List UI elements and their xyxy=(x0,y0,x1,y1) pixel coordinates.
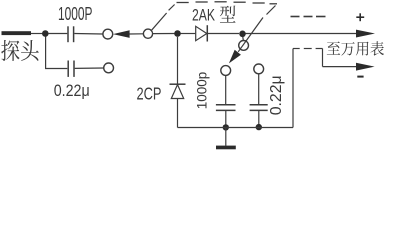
ground stem xyxy=(225,128,227,146)
wire C4 to rail xyxy=(258,111,260,126)
wire probe to node A xyxy=(31,33,43,35)
wire D1 to node C xyxy=(208,33,239,35)
ground symbol bar xyxy=(216,146,236,150)
capacitor C3 1000p xyxy=(216,105,236,111)
wire S2a to C3 xyxy=(225,76,227,105)
switch S1 wiper line xyxy=(129,33,143,35)
diode D2 2CP cathode bar xyxy=(170,83,186,85)
gang dashed horizontal xyxy=(177,2,278,4)
switch S1 contact a circle xyxy=(103,29,113,39)
wire node B down to D2 xyxy=(177,37,179,84)
svg-text:0.22μ: 0.22μ xyxy=(268,75,285,115)
switch S2 lever xyxy=(238,18,263,52)
dashed bridge to output - xyxy=(293,48,300,50)
label 探头 xyxy=(1,40,39,61)
svg-text:1000P: 1000P xyxy=(58,4,93,24)
node E junction dot xyxy=(256,124,262,130)
switch S1 lever xyxy=(152,13,167,30)
wire node B to D1 xyxy=(181,33,196,35)
ground rail xyxy=(178,127,294,129)
switch S2 pivot circle xyxy=(239,41,249,51)
output + arrowhead xyxy=(356,30,375,38)
output - arrowhead xyxy=(356,63,375,71)
svg-text:2CP: 2CP xyxy=(137,84,162,104)
svg-text:1000p: 1000p xyxy=(194,72,209,110)
switch S2 contact b circle xyxy=(254,64,264,74)
wire node C to output + xyxy=(246,33,358,35)
svg-text:0.22μ: 0.22μ xyxy=(54,82,90,100)
wire node A down xyxy=(46,37,68,69)
switch S1 pivot circle xyxy=(143,29,152,38)
wire node A to C1 xyxy=(48,33,67,35)
switch S2 contact a circle xyxy=(221,66,231,76)
wire C2 to S1 contact b xyxy=(75,67,104,69)
label + xyxy=(356,13,364,21)
wire C3 to rail xyxy=(225,111,227,126)
capacitor C4 0.22u xyxy=(250,105,268,111)
dashed marks near + output xyxy=(291,16,326,18)
wire S2b to C4 xyxy=(258,74,260,104)
switch S1 wiper arrowhead xyxy=(113,30,130,38)
capacitor C2 0.22u xyxy=(68,61,74,77)
node C junction dot xyxy=(239,31,246,38)
capacitor C1 1000P xyxy=(68,26,74,42)
rail riser right xyxy=(292,49,294,128)
diode D1 cathode bar xyxy=(206,25,208,41)
probe tip bar xyxy=(2,31,32,35)
stub node C to S2 pivot xyxy=(242,37,245,41)
gang dashed diagonal right xyxy=(267,6,276,15)
label 型 xyxy=(220,6,236,23)
output - wire xyxy=(323,66,358,68)
wire C1 to S1 contact a xyxy=(74,33,103,36)
node B junction dot xyxy=(174,30,181,37)
diode D2 2CP triangle xyxy=(171,85,183,99)
label 至万用表 xyxy=(327,41,384,55)
riser to output - line xyxy=(322,49,324,67)
label - xyxy=(357,76,363,78)
diode D1 2AK triangle xyxy=(196,26,207,40)
switch S2 wiper arrowhead xyxy=(229,50,241,64)
node A junction dot xyxy=(42,30,49,37)
wire D2 to rail xyxy=(177,99,179,128)
wire S1 pivot to node B xyxy=(153,33,175,35)
switch S1 contact b circle xyxy=(104,63,114,73)
svg-text:2AK: 2AK xyxy=(192,7,215,25)
gang dashed diagonal left xyxy=(169,5,175,11)
node D junction dot xyxy=(223,124,229,130)
